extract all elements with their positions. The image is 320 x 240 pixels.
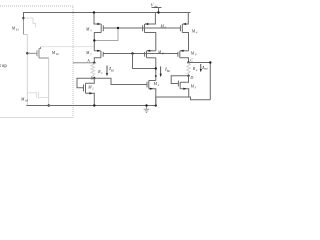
wire node B to M2 gate <box>94 78 147 84</box>
junction dot output corner <box>209 61 211 63</box>
current arrow Iout <box>200 64 202 70</box>
wire Mb1 source column <box>23 19 25 35</box>
Vdd supply rail <box>24 13 191 19</box>
junction dot M5 source on rail <box>93 11 95 13</box>
node B <box>93 77 95 79</box>
wire M8 drain column <box>155 58 157 81</box>
wire cascode bus tap to M8 drain <box>133 54 156 69</box>
transistor M8 (cascode PMOS) <box>145 51 156 58</box>
wire start-up to core (light) <box>41 46 95 48</box>
transistor Mb1 (light) <box>24 18 36 27</box>
junction dot M5 drain <box>93 39 95 41</box>
svg-text:4: 4 <box>196 31 198 35</box>
transistor M7 (cascode PMOS) <box>94 51 103 63</box>
node A <box>93 62 95 64</box>
svg-text:3: 3 <box>195 86 197 90</box>
svg-text:out: out <box>204 67 208 71</box>
cascode gate bus <box>103 53 178 55</box>
arrow M4 source <box>183 23 186 25</box>
svg-text:9: 9 <box>195 53 197 57</box>
current arrow IB1 <box>106 66 108 74</box>
ground symbol <box>144 106 150 113</box>
junction dot ground rail end <box>155 104 157 106</box>
arrow M9 source <box>180 50 183 52</box>
svg-text:1: 1 <box>92 86 94 90</box>
arrow M8 source <box>147 50 150 52</box>
node C <box>187 61 189 63</box>
transistor M6 (top-middle PMOS) <box>143 13 156 51</box>
transistor M2 <box>147 81 156 106</box>
svg-text:D: D <box>189 75 193 80</box>
junction dot ground symbol <box>145 104 147 106</box>
wire Mb2 source to Mb3 drain <box>48 58 50 106</box>
arrow M7 source <box>97 50 100 52</box>
svg-text:A: A <box>86 59 90 63</box>
arrow M6 source <box>145 23 148 25</box>
arrow M5 source <box>97 23 100 25</box>
node D <box>187 75 189 77</box>
svg-text:C: C <box>190 58 193 63</box>
svg-text:7: 7 <box>90 52 92 56</box>
svg-text:1: 1 <box>101 71 103 75</box>
wire Mb1 drain to Mb3 gate (light) <box>24 35 28 106</box>
arrow M1 source <box>89 92 92 94</box>
svg-text:B2: B2 <box>167 69 171 73</box>
wire node C to output branch <box>189 63 211 100</box>
svg-text:B1: B1 <box>111 68 115 72</box>
junction dot Mb3 source on ground rail <box>48 104 50 106</box>
transistor Mb2 <box>27 47 48 58</box>
junction dot Mb1 source <box>22 17 24 19</box>
wire diode connection M5 <box>94 28 118 41</box>
ground rail <box>26 105 156 107</box>
Vdd terminal symbol <box>152 8 162 13</box>
arrow M2 source <box>150 88 153 90</box>
current arrow IB2 <box>160 66 162 74</box>
svg-text:dd: dd <box>154 4 158 8</box>
transistor M1 (diode NMOS) <box>77 78 94 105</box>
svg-text:b3: b3 <box>25 98 28 102</box>
transistor M3 (output diode NMOS) <box>171 76 189 97</box>
junction dot gate bus tap <box>117 27 119 29</box>
svg-text:b1: b1 <box>16 28 19 32</box>
junction dot M2 drain <box>155 75 157 77</box>
svg-text:b2: b2 <box>56 52 59 56</box>
junction dot M8 drain tap <box>155 67 157 69</box>
start-up dashed box <box>0 6 73 118</box>
arrow M3 source <box>183 88 186 90</box>
wire output branch to ground column <box>156 97 211 106</box>
transistor M9 (cascode PMOS right) <box>178 51 189 63</box>
resistor R1 <box>91 63 95 78</box>
gate bus of PMOS mirror <box>103 27 180 29</box>
svg-text:2: 2 <box>158 83 160 87</box>
resistor R2 <box>187 63 191 76</box>
wire node A to start-up box edge <box>73 62 94 64</box>
junction dot Mb2 gate tap <box>26 52 28 54</box>
transistor M4 (top-right PMOS) <box>180 13 188 51</box>
svg-text:5: 5 <box>90 28 92 32</box>
junction dot Vdd on rail <box>157 11 159 13</box>
svg-text:t up: t up <box>0 64 7 69</box>
transistor Mb3 (light) <box>27 92 48 99</box>
transistor M5 (top-left PMOS diode) <box>94 13 103 51</box>
junction dot M1 source on rail <box>93 104 95 106</box>
junction dot cascode bus tap <box>131 52 133 54</box>
svg-text:2: 2 <box>196 68 198 72</box>
